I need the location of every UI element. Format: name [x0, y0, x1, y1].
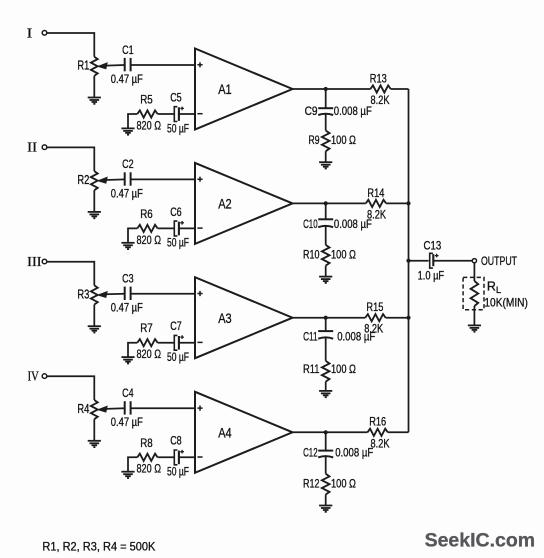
- capacitor C11 leads: [325, 318, 327, 361]
- svg-text:C12: C12: [303, 446, 318, 460]
- svg-text:RL: RL: [487, 279, 501, 296]
- svg-text:0.008 µF: 0.008 µF: [335, 446, 373, 460]
- potentiometer R3 body: [91, 285, 98, 304]
- resistor R13 body: [370, 85, 390, 92]
- wire A2 output to R14: [293, 202, 366, 204]
- output terminal: [472, 259, 476, 263]
- wire R14 to summing bus: [386, 202, 408, 204]
- capacitor C7 (electrolytic): [174, 335, 184, 350]
- capacitor C13 (electrolytic): [430, 253, 439, 268]
- node A2 output junction: [324, 201, 328, 205]
- potentiometer R2 body: [91, 171, 98, 190]
- svg-text:8.2K: 8.2K: [364, 322, 383, 336]
- input terminal IV: [42, 374, 47, 379]
- wire ground to R7: [128, 343, 137, 357]
- svg-text:R6: R6: [140, 207, 153, 221]
- svg-text:1.0 µF: 1.0 µF: [418, 269, 445, 283]
- svg-text:R15: R15: [366, 300, 383, 314]
- svg-text:R12: R12: [303, 477, 320, 491]
- wire R12 to ground: [325, 495, 327, 506]
- svg-text:R1: R1: [77, 59, 89, 73]
- svg-text:R4: R4: [77, 402, 89, 416]
- wire R13 to summing bus: [391, 88, 409, 90]
- svg-text:C9: C9: [305, 104, 318, 118]
- svg-text:C8: C8: [170, 434, 182, 448]
- svg-text:820 Ω: 820 Ω: [137, 118, 162, 132]
- svg-text:R11: R11: [303, 362, 320, 376]
- svg-text:820 Ω: 820 Ω: [137, 233, 162, 247]
- resistor R11 body: [322, 361, 330, 382]
- wire C7 to A3 - input: [179, 342, 195, 344]
- resistor R8 body: [137, 454, 157, 461]
- wire R1 to ground: [93, 76, 95, 98]
- wire R15 to summing bus: [386, 317, 409, 319]
- svg-text:A4: A4: [218, 426, 232, 441]
- ground under RL: [468, 325, 481, 331]
- junction bus / C13: [406, 259, 410, 263]
- ground under R1: [88, 98, 101, 104]
- wire input IV to R4: [47, 376, 94, 400]
- input terminal III: [42, 259, 47, 264]
- wire input II to R2: [47, 147, 94, 171]
- svg-text:100 Ω: 100 Ω: [331, 248, 356, 262]
- wire output to RL: [473, 263, 475, 281]
- wire R4 to ground: [93, 419, 95, 441]
- svg-text:C5: C5: [170, 90, 182, 104]
- svg-text:R8: R8: [140, 436, 153, 450]
- wire bus to C13: [409, 260, 429, 262]
- node A4 output junction: [324, 430, 328, 434]
- svg-text:A3: A3: [218, 311, 232, 326]
- svg-text:820 Ω: 820 Ω: [137, 347, 162, 361]
- resistor R14 body: [366, 200, 386, 207]
- capacitor C9 leads: [325, 89, 327, 131]
- svg-text:100 Ω: 100 Ω: [331, 362, 356, 376]
- wire R5 to C5: [158, 113, 174, 115]
- svg-text:50 µF: 50 µF: [167, 236, 189, 250]
- svg-text:C13: C13: [424, 239, 442, 253]
- resistor R7 body: [137, 339, 157, 346]
- svg-text:R13: R13: [370, 71, 387, 85]
- wire RL to ground: [473, 306, 475, 325]
- capacitor C11 plates: [318, 331, 333, 339]
- svg-text:R5: R5: [140, 93, 153, 107]
- wire R16 to summing bus: [388, 431, 409, 433]
- svg-text:0.008 µF: 0.008 µF: [334, 104, 372, 118]
- svg-text:R10: R10: [303, 248, 320, 262]
- svg-text:100 Ω: 100 Ω: [331, 133, 356, 147]
- svg-text:0.47 µF: 0.47 µF: [111, 72, 143, 86]
- svg-text:50 µF: 50 µF: [167, 465, 189, 479]
- ground under R11: [319, 391, 332, 397]
- resistor R9 body: [322, 131, 330, 152]
- svg-text:A2: A2: [218, 197, 232, 212]
- resistor R16 body: [368, 429, 388, 436]
- wire R9 to ground: [325, 151, 327, 162]
- wire C3 to A3 + input: [131, 293, 195, 295]
- input terminal I: [42, 31, 47, 36]
- potentiometer R3 wiper arrow: [98, 291, 125, 297]
- junction bus / R15: [406, 316, 410, 320]
- svg-text:I: I: [27, 25, 33, 40]
- ground for R7: [121, 357, 134, 363]
- resistor R12 body: [322, 474, 330, 495]
- svg-text:50 µF: 50 µF: [167, 121, 189, 135]
- wire A4 output to R16: [293, 431, 368, 433]
- potentiometer R1 body: [91, 57, 98, 76]
- node A3 output junction: [324, 316, 328, 320]
- svg-text:0.47 µF: 0.47 µF: [111, 301, 143, 315]
- wire ground to R6: [128, 228, 137, 242]
- svg-text:0.47 µF: 0.47 µF: [111, 415, 143, 429]
- svg-text:R7: R7: [140, 321, 153, 335]
- wire R6 to C6: [158, 227, 174, 229]
- node A1 output junction: [324, 87, 328, 91]
- svg-text:SeekIC.com: SeekIC.com: [425, 530, 535, 552]
- svg-text:100 Ω: 100 Ω: [331, 477, 356, 491]
- capacitor C3 plates: [125, 287, 131, 300]
- capacitor C8 (electrolytic): [174, 450, 184, 465]
- wire C2 to A2 + input: [131, 178, 195, 180]
- svg-text:0.47 µF: 0.47 µF: [111, 186, 143, 200]
- wire R11 to ground: [325, 382, 327, 391]
- wire R8 to C8: [158, 456, 174, 458]
- capacitor C9 plates: [318, 108, 333, 115]
- ground for R6: [121, 243, 134, 249]
- op-amp A2: [195, 163, 293, 244]
- resistor R15 body: [365, 314, 385, 321]
- svg-text:R14: R14: [367, 186, 384, 200]
- svg-text:R2: R2: [77, 173, 89, 187]
- wire R10 to ground: [325, 266, 327, 277]
- resistor R5 body: [137, 110, 157, 117]
- svg-text:8.2K: 8.2K: [367, 207, 386, 221]
- wire input I to R1: [47, 33, 94, 57]
- capacitor C12 leads: [325, 432, 327, 474]
- junction bus / R14: [406, 201, 410, 205]
- ground under R9: [319, 162, 332, 168]
- wire C4 to A4 + input: [131, 407, 195, 409]
- svg-text:C11: C11: [303, 329, 318, 343]
- capacitor C2 plates: [125, 172, 131, 185]
- svg-text:820 Ω: 820 Ω: [137, 462, 162, 476]
- ground for R8: [121, 472, 134, 478]
- resistor R6 body: [137, 225, 157, 232]
- svg-text:C2: C2: [122, 157, 134, 171]
- svg-text:10K(MIN): 10K(MIN): [484, 296, 528, 310]
- op-amp A4: [195, 392, 293, 473]
- wire C8 to A4 - input: [179, 456, 195, 458]
- wire A1 output to R13: [293, 88, 371, 90]
- wire summing bus: [408, 89, 410, 432]
- potentiometer R1 wiper arrow: [98, 63, 125, 69]
- svg-text:C10: C10: [303, 217, 318, 231]
- ground under R2: [88, 212, 101, 218]
- wire C13 to output terminal: [433, 260, 472, 262]
- svg-text:R16: R16: [369, 415, 386, 429]
- ground under R3: [88, 326, 101, 332]
- load resistor RL dashed box: [463, 277, 484, 309]
- wire A3 output to R15: [293, 317, 366, 319]
- svg-text:C4: C4: [122, 386, 134, 400]
- wire C6 to A2 - input: [179, 227, 195, 229]
- capacitor C10 leads: [325, 203, 327, 245]
- potentiometer R2 wiper arrow: [98, 177, 125, 183]
- svg-text:R9: R9: [309, 133, 320, 147]
- wire R3 to ground: [93, 305, 95, 327]
- svg-text:C3: C3: [122, 272, 134, 286]
- svg-text:R3: R3: [77, 287, 89, 301]
- svg-text:C7: C7: [170, 319, 182, 333]
- capacitor C5 (electrolytic): [174, 107, 184, 122]
- ground under R12: [319, 506, 332, 512]
- input terminal II: [42, 145, 47, 150]
- ground under R10: [319, 277, 332, 283]
- svg-text:C1: C1: [122, 43, 134, 57]
- svg-text:II: II: [27, 140, 37, 155]
- svg-text:A1: A1: [218, 82, 232, 97]
- wire input III to R3: [47, 262, 94, 286]
- wire ground to R5: [128, 114, 137, 128]
- capacitor C1 plates: [125, 58, 131, 71]
- resistor R10 body: [322, 245, 330, 266]
- svg-text:III: III: [27, 254, 42, 269]
- svg-text:OUTPUT: OUTPUT: [481, 254, 517, 268]
- load resistor RL body: [471, 281, 479, 306]
- svg-text:50 µF: 50 µF: [167, 350, 189, 364]
- wire C1 to A1 + input: [131, 64, 195, 66]
- op-amp A1: [195, 49, 293, 130]
- svg-text:8.2K: 8.2K: [371, 436, 390, 450]
- ground under R4: [88, 441, 101, 447]
- wire R2 to ground: [93, 190, 95, 212]
- svg-text:R1, R2, R3, R4 = 500K: R1, R2, R3, R4 = 500K: [42, 539, 155, 553]
- wire R7 to C7: [158, 342, 174, 344]
- capacitor C4 plates: [125, 401, 131, 414]
- wire C5 to A1 - input: [179, 113, 195, 115]
- svg-text:8.2K: 8.2K: [371, 93, 390, 107]
- potentiometer R4 body: [91, 400, 98, 419]
- capacitor C6 (electrolytic): [174, 221, 184, 236]
- svg-text:C6: C6: [170, 205, 182, 219]
- capacitor C12 plates: [318, 451, 333, 458]
- op-amp A3: [195, 277, 293, 358]
- potentiometer R4 wiper arrow: [98, 406, 125, 412]
- ground for R5: [121, 128, 134, 134]
- wire ground to R8: [128, 457, 137, 471]
- svg-text:IV: IV: [28, 369, 39, 384]
- capacitor C10 plates: [318, 219, 333, 227]
